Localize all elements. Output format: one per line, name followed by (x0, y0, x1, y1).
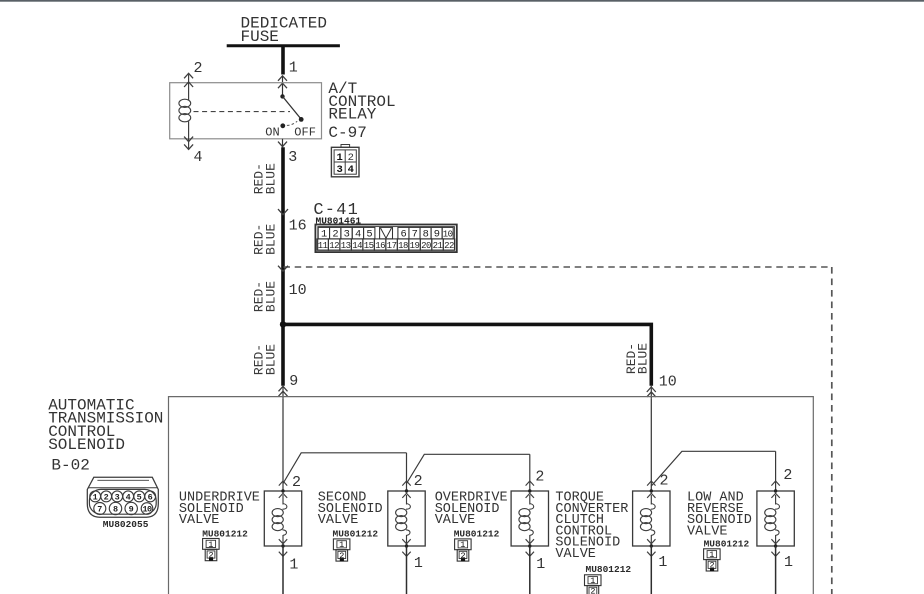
solenoid L2 second pin 1 arrows (402, 539, 410, 544)
svg-text:1: 1 (289, 59, 298, 76)
relay U1 A/T control relay box (170, 83, 322, 139)
svg-text:1: 1 (208, 540, 213, 550)
svg-text:RED-BLUE: RED-BLUE (251, 281, 278, 312)
solenoid L4 torque converter pin 2 arrows (647, 481, 655, 486)
svg-text:RELAY: RELAY (328, 105, 376, 123)
svg-text:1: 1 (93, 492, 98, 502)
wire: drop to second solenoid pin 2 (406, 453, 408, 491)
solenoid L5 low/reverse pin 2 arrows (771, 481, 779, 486)
solenoid L3 overdrive coil box (511, 491, 548, 546)
svg-text:1: 1 (339, 540, 344, 550)
svg-text:2: 2 (783, 467, 792, 484)
svg-text:2: 2 (194, 60, 203, 77)
svg-text:1: 1 (658, 554, 667, 571)
svg-text:2: 2 (414, 473, 423, 490)
solenoid L3 overdrive pin 2 arrows (526, 481, 534, 486)
solenoid L2 second pin 2 arrows (402, 481, 410, 486)
C-41 keyway (380, 227, 393, 239)
svg-text:MU801212: MU801212 (704, 538, 750, 549)
page top border (0, 0, 924, 2)
solenoid L5 low/reverse pin 1 arrows (771, 539, 779, 544)
svg-text:4: 4 (355, 229, 361, 241)
svg-text:1: 1 (709, 550, 714, 560)
solenoid L4 torque converter pin 1 arrows (647, 539, 655, 544)
svg-text:13: 13 (341, 241, 351, 251)
svg-text:2: 2 (104, 492, 109, 502)
wire run torque pin2 to low/reverse pin2 (651, 451, 775, 486)
svg-text:4: 4 (126, 492, 131, 502)
connector C-97 icon (331, 145, 359, 177)
solenoid L1 underdrive pin 1 arrows (279, 539, 287, 544)
pin 10 arrows (branch) (650, 385, 652, 398)
svg-text:18: 18 (398, 241, 408, 251)
solenoid L1 underdrive coil box (264, 491, 301, 546)
solenoid L1 underdrive pin 2 arrows (279, 481, 287, 486)
dashed harness boundary horizontal (284, 266, 832, 268)
solenoid L3 overdrive pin connector icon (455, 539, 472, 561)
svg-text:20: 20 (421, 241, 431, 251)
solenoid L2 second pin connector icon (333, 539, 350, 561)
relay coil wire top (188, 75, 190, 101)
wire run second pin2 to overdrive pin2 (407, 454, 530, 483)
wire: drop to overdrive solenoid pin 2 (529, 454, 531, 491)
solenoid L5 low/reverse coil box (757, 491, 794, 546)
svg-text:2: 2 (332, 229, 338, 241)
svg-text:9: 9 (434, 229, 440, 241)
solenoid L5 low/reverse coil (775, 495, 777, 505)
svg-text:10: 10 (443, 230, 453, 240)
svg-text:VALVE: VALVE (687, 524, 728, 539)
svg-text:12: 12 (329, 241, 339, 251)
svg-text:RED-BLUE: RED-BLUE (251, 224, 278, 255)
solenoid L2 second coil box (388, 491, 425, 546)
svg-text:4: 4 (348, 164, 354, 176)
svg-text:10: 10 (142, 505, 152, 515)
relay ON contact (280, 123, 285, 128)
svg-text:3: 3 (344, 229, 350, 241)
solenoid L1 underdrive pin connector icon (203, 539, 220, 561)
wire: pin10 down to torque converter coil (650, 398, 652, 491)
svg-text:B-02: B-02 (51, 456, 89, 474)
relay switch pivot contact (280, 94, 284, 98)
solenoid L4 torque converter wire to ground (off page) (650, 546, 652, 594)
svg-text:14: 14 (352, 241, 362, 251)
svg-text:SOLENOID: SOLENOID (48, 436, 125, 454)
svg-text:8: 8 (113, 505, 118, 515)
solenoid L3 overdrive coil (529, 495, 531, 505)
wire: pin9 down to underdrive coil (282, 398, 284, 491)
svg-text:OFF: OFF (294, 126, 316, 140)
main wire: relay pin3 down to B-02 pin 9 (thick RED-BLUE) (281, 147, 285, 386)
solenoid L5 low/reverse wire to ground (off page) (775, 546, 777, 594)
branch wire to pin 10 (thick) (283, 324, 651, 385)
svg-text:7: 7 (412, 229, 418, 241)
solenoid L3 overdrive wire to ground (off page) (529, 546, 531, 594)
svg-text:2: 2 (535, 469, 544, 486)
svg-text:10: 10 (289, 282, 307, 299)
connector B-02 icon (87, 477, 158, 517)
svg-text:2: 2 (292, 474, 301, 491)
svg-text:2: 2 (590, 587, 595, 594)
svg-text:4: 4 (194, 149, 203, 166)
solenoid L5 low/reverse pin connector icon (704, 549, 721, 571)
relay coil wire bottom (188, 122, 190, 149)
pin 9 arrows (282, 385, 284, 398)
relay coil L1 (179, 99, 191, 107)
svg-text:1: 1 (590, 576, 595, 586)
svg-text:6: 6 (401, 229, 407, 241)
wire: into relay to switch pivot (282, 76, 284, 95)
svg-text:FUSE: FUSE (241, 28, 279, 46)
svg-text:22: 22 (444, 241, 454, 251)
pin 3 arrow (282, 139, 284, 147)
solenoid L1 underdrive coil (282, 495, 284, 505)
solenoid L2 second wire to ground (off page) (406, 546, 408, 594)
solenoid L3 overdrive pin 1 arrows (526, 539, 534, 544)
svg-text:17: 17 (387, 241, 397, 251)
svg-text:VALVE: VALVE (179, 513, 220, 528)
svg-text:MU801212: MU801212 (202, 529, 248, 540)
solenoid L4 torque converter coil box (633, 491, 670, 546)
svg-text:8: 8 (423, 229, 429, 241)
svg-text:10: 10 (659, 374, 677, 391)
svg-text:6: 6 (148, 492, 153, 502)
svg-text:16: 16 (375, 241, 385, 251)
svg-text:3: 3 (337, 164, 343, 176)
dashed harness boundary vertical (831, 267, 833, 594)
solenoid L4 torque converter pin connector icon (585, 575, 602, 594)
svg-text:RED-BLUE: RED-BLUE (624, 343, 651, 374)
solenoid L4 torque converter coil (650, 495, 652, 505)
B-02 automatic transmission control solenoid box (169, 397, 814, 594)
svg-text:2: 2 (660, 473, 669, 490)
crossing arrow at C-41 (278, 209, 288, 215)
svg-text:VALVE: VALVE (555, 547, 596, 562)
svg-text:1: 1 (337, 152, 343, 164)
svg-text:11: 11 (318, 241, 328, 251)
relay switch blade (283, 96, 301, 118)
svg-text:9: 9 (289, 373, 298, 390)
svg-text:21: 21 (433, 241, 443, 251)
pin 1 crossing arrows (278, 76, 287, 81)
svg-text:1: 1 (536, 556, 545, 573)
junction node (280, 321, 286, 327)
svg-text:VALVE: VALVE (435, 513, 476, 528)
svg-text:1: 1 (784, 554, 793, 571)
svg-text:3: 3 (288, 149, 297, 166)
relay switch dashed actuator line (194, 111, 291, 113)
svg-text:7: 7 (97, 505, 102, 515)
svg-text:MU801212: MU801212 (333, 529, 379, 540)
svg-text:5: 5 (366, 229, 372, 241)
svg-text:2: 2 (348, 152, 354, 164)
svg-text:RED-BLUE: RED-BLUE (251, 163, 278, 194)
svg-text:MU802055: MU802055 (103, 519, 149, 530)
solenoid L1 underdrive wire to ground (off page) (282, 546, 284, 594)
svg-text:1: 1 (460, 540, 465, 550)
dashed throw arc (287, 121, 297, 125)
svg-text:C-97: C-97 (328, 124, 366, 142)
svg-text:VALVE: VALVE (318, 513, 359, 528)
svg-text:1: 1 (321, 229, 327, 241)
wire: drop to low/reverse solenoid pin 2 (775, 451, 777, 491)
fuse bus wire (227, 44, 340, 47)
svg-text:1: 1 (289, 557, 298, 574)
svg-text:3: 3 (115, 492, 120, 502)
crossing arrow at boundary (278, 266, 288, 272)
svg-text:1: 1 (414, 555, 423, 572)
solenoid L2 second coil (406, 495, 408, 505)
pin 2 arrow (184, 73, 193, 78)
svg-text:RED-BLUE: RED-BLUE (251, 344, 278, 375)
wire: fuse to relay pin 1 (thick) (281, 45, 285, 75)
svg-text:ON: ON (265, 126, 279, 140)
svg-text:16: 16 (289, 218, 307, 235)
pin 4 arrows (184, 137, 193, 142)
connector C-41 icon (315, 225, 456, 253)
svg-text:5: 5 (137, 492, 142, 502)
svg-text:15: 15 (364, 241, 374, 251)
relay OFF contact (299, 117, 304, 122)
svg-text:MU801212: MU801212 (454, 529, 500, 540)
wire run underdrive pin2 to second pin2 (283, 453, 407, 484)
svg-text:19: 19 (410, 241, 420, 251)
svg-text:MU801212: MU801212 (586, 564, 632, 575)
svg-text:9: 9 (129, 505, 134, 515)
